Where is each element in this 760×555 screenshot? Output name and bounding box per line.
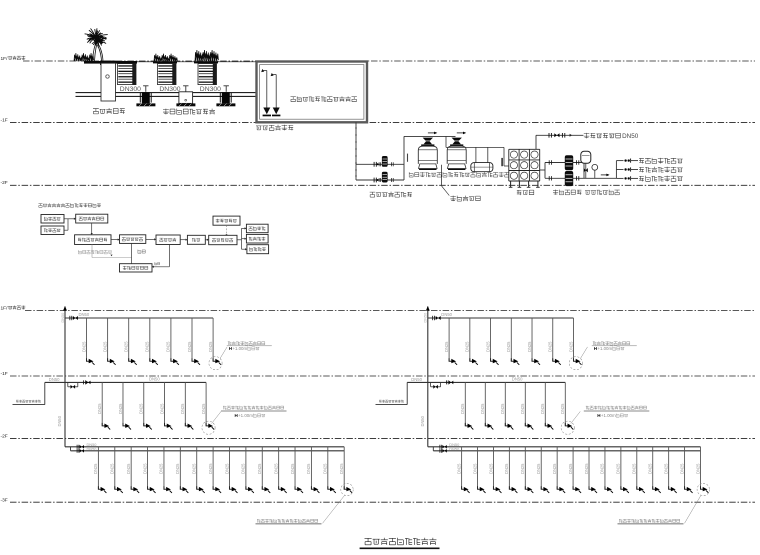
svg-text:DN25: DN25	[175, 463, 180, 474]
-2F drop pipe 10 with hose bib	[604, 447, 606, 490]
svg-text:DN25: DN25	[568, 463, 573, 474]
-2F lower distribution pipe DN50	[71, 450, 345, 452]
intercept-discard filter unit 2	[158, 64, 177, 85]
label 雨水处理提升泵	[370, 192, 412, 197]
flow box 地库冲洗	[246, 224, 268, 233]
pump discharge manifold riser	[403, 136, 405, 180]
-2F drop pipe 7 with hose bib	[556, 447, 558, 490]
diaphragm pressure tank 隔膜式气压罐	[581, 151, 591, 163]
-2F drop pipe 9 with hose bib	[228, 447, 230, 490]
gate valve (T symbol) on drop	[183, 85, 188, 87]
outlet branch: road sprinkling	[616, 177, 623, 179]
-2F drop pipe 15 with hose bib	[327, 447, 329, 490]
svg-text:DN25: DN25	[290, 463, 295, 474]
treated-water manifold to clean tank	[446, 146, 504, 148]
svg-text:DN50: DN50	[57, 415, 62, 426]
-2F drop pipe 14 with hose bib	[310, 447, 312, 490]
flowchart title 雨水收集与回用系统工艺流程	[39, 203, 101, 207]
-2F drop pipe 12 with hose bib	[636, 447, 638, 490]
shrub row right (taller planting)	[195, 50, 218, 61]
flow box 雨水收集管网	[76, 214, 108, 223]
svg-text:DN25: DN25	[166, 341, 171, 352]
svg-text:DN25: DN25	[208, 463, 213, 474]
discard path from diversion well (gray)	[91, 245, 93, 258]
-2F drop pipe 13 with hose bib	[652, 447, 654, 490]
note 绿化浇洒栓(带锁) H+1.00m	[593, 341, 630, 345]
label 雨水分流井	[93, 108, 125, 114]
inlet label 接自雨水处理机房	[379, 400, 404, 403]
1F horizontal main	[428, 317, 574, 319]
-1F drop pipe 6 with hose bib	[205, 382, 207, 426]
-1F bypass valve (below main)	[67, 382, 69, 386]
-1F drop pipe 6 with hose bib	[564, 382, 566, 426]
label 弃流	[138, 250, 145, 254]
svg-text:DN25: DN25	[472, 463, 477, 474]
riser pipe (vertical main)	[427, 307, 429, 447]
flow connector well to storage	[111, 239, 118, 241]
-2F drop pipe 2 with hose bib	[114, 447, 116, 490]
svg-text:DN25: DN25	[485, 341, 490, 352]
1F drop pipe 3 with hose bib	[490, 318, 492, 361]
-1F horizontal main	[45, 381, 206, 383]
tap water makeup pipe	[536, 134, 583, 136]
leader line to 1F note	[580, 347, 587, 359]
riser top arrowhead	[426, 306, 430, 311]
dashed instruction circle (-1F last bib)	[202, 421, 215, 434]
pressure pump branch lower / discharge main	[545, 177, 616, 179]
svg-text:DN25: DN25	[180, 403, 185, 414]
collection pipe (double line) to storage pool	[116, 92, 257, 94]
flow connector roof/road to network	[64, 218, 68, 220]
svg-text:DN25: DN25	[568, 341, 573, 352]
svg-text:DN25: DN25	[102, 341, 107, 352]
flow box 雨水处理	[156, 235, 180, 245]
-1F drop pipe 4 with hose bib	[164, 382, 166, 426]
svg-text:DN25: DN25	[584, 463, 589, 474]
pump under unit1 (black)	[139, 93, 141, 103]
1F drop pipe 1 with hose bib	[86, 318, 88, 361]
1F drop pipe 4 with hose bib	[510, 318, 512, 361]
-1F drop pipe 3 with hose bib	[504, 382, 506, 426]
svg-text:DN25: DN25	[488, 463, 493, 474]
svg-text:DN25: DN25	[93, 463, 98, 474]
dashed instruction circle (1F last bib)	[209, 357, 222, 370]
1F drop pipe 2 with hose bib	[469, 318, 471, 361]
flow box 道路浇洒	[247, 245, 269, 254]
svg-text:DN50: DN50	[449, 446, 460, 451]
svg-text:-2F: -2F	[1, 434, 8, 440]
-2F drop pipe 3 with hose bib	[130, 447, 132, 490]
svg-text:DN300: DN300	[200, 86, 221, 93]
dashed instruction circle (-2F last bib)	[697, 483, 709, 495]
-2F drop pipe 5 with hose bib	[163, 447, 165, 490]
label 蓄水池放空泵	[256, 125, 293, 131]
floor line 1F/outdoor grade (top section)	[23, 60, 755, 62]
vessel skirt carbon filter	[447, 164, 466, 169]
pump under unit3 (black)	[219, 93, 221, 103]
lift pump P2 雨水处理提升泵	[382, 172, 388, 183]
svg-text:DN25: DN25	[444, 341, 449, 352]
1F horizontal main	[65, 317, 213, 319]
flow connector clean pool to uses	[237, 239, 242, 241]
drawing title 雨水回用系统原理图	[365, 538, 437, 545]
emptying pump 2 in pool	[275, 75, 277, 108]
label 清水箱	[517, 190, 534, 195]
label 弃流(超量)雨水	[78, 250, 112, 254]
svg-text:+1.00m: +1.00m	[238, 413, 253, 418]
-2F drop pipe 6 with hose bib	[540, 447, 542, 490]
underground concrete rainwater collection pool	[257, 62, 368, 123]
svg-text:DN25: DN25	[648, 463, 653, 474]
svg-text:DN25: DN25	[145, 341, 150, 352]
makeup valve cluster	[548, 133, 550, 138]
discard drop from storage to sewer box	[131, 243, 133, 263]
-2F drop pipe 16 with hose bib	[343, 447, 345, 490]
-1F main valve	[83, 380, 85, 384]
-1F drop pipe 1 with hose bib	[101, 382, 103, 426]
svg-text:DN25: DN25	[527, 341, 532, 352]
svg-text:DN25: DN25	[159, 403, 164, 414]
leader line to -2F note	[323, 495, 345, 523]
clean tank outlet pipe	[540, 169, 545, 171]
-2F upper distribution pipe DN50	[428, 446, 701, 448]
-2F drop pipe 6 with hose bib	[179, 447, 181, 490]
svg-text:DN25: DN25	[97, 403, 102, 414]
svg-text:+1.00m: +1.00m	[597, 346, 612, 351]
1F drop pipe 5 with hose bib	[531, 318, 533, 361]
-2F drop pipe 1 with hose bib	[461, 447, 463, 490]
-1F drop pipe 5 with hose bib	[184, 382, 186, 426]
-2F drop pipe 3 with hose bib	[492, 447, 494, 490]
-2F lower distribution pipe DN50	[433, 450, 700, 452]
svg-text:DN25: DN25	[192, 463, 197, 474]
flow box 过滤	[187, 235, 205, 244]
intercept-discard filter unit 1	[118, 64, 137, 85]
leader line to -2F note	[685, 495, 702, 523]
svg-text:DN25: DN25	[465, 341, 470, 352]
leader line to 1F note	[220, 347, 227, 359]
1F main shutoff valve	[432, 316, 434, 320]
flow box 雨水蓄水池	[120, 235, 146, 244]
label 截污弃流过滤装置	[163, 109, 215, 115]
svg-text:DN25: DN25	[339, 463, 344, 474]
-2F upper distribution pipe DN50	[65, 446, 344, 448]
svg-text:DN25: DN25	[241, 463, 246, 474]
svg-text:DN50: DN50	[149, 377, 160, 382]
svg-text:DN25: DN25	[552, 463, 557, 474]
svg-text:DN25: DN25	[663, 463, 668, 474]
svg-text:DN50: DN50	[441, 312, 452, 317]
pump suction manifold	[544, 163, 546, 179]
-2F drop pipe 4 with hose bib	[147, 447, 149, 490]
svg-text:DN25: DN25	[118, 403, 123, 414]
-2F drop pipe 9 with hose bib	[588, 447, 590, 490]
svg-text:DN25: DN25	[632, 463, 637, 474]
hatched base 2	[176, 103, 195, 106]
ground caps over buried units	[84, 61, 137, 64]
flow box 市政污水管网	[120, 264, 153, 272]
svg-text:DN25: DN25	[506, 341, 511, 352]
label 排至集水坑	[450, 196, 480, 201]
flow arrow on discharge main	[601, 174, 609, 176]
flow box 自来水补水	[213, 216, 240, 225]
leader line to -1F note	[571, 411, 581, 423]
-1F drop pipe 3 with hose bib	[143, 382, 145, 426]
flow-measure chamber under unit2 (white box)	[179, 92, 193, 104]
note 洗地冲洗栓/绿化浇洒栓(带锁) H+1.00m	[223, 406, 284, 410]
svg-text:DN25: DN25	[679, 463, 684, 474]
pressure gauge	[592, 164, 598, 170]
-2F drop pipe 12 with hose bib	[278, 447, 280, 490]
outlet branch: garage flushing	[616, 160, 623, 162]
distribution header riser	[615, 161, 617, 179]
outlet branch: greening irrigation	[616, 169, 623, 171]
flow connector tap makeup (dashed)	[226, 225, 228, 234]
inflow pipe stub left of well	[76, 92, 102, 94]
tank isolation valve	[584, 168, 586, 172]
svg-text:DN25: DN25	[201, 403, 206, 414]
-1F main valve	[445, 380, 447, 384]
flow box 雨水清水池	[209, 235, 237, 244]
valve on lower -2F pipe	[76, 449, 78, 453]
multiport valve on sand filter	[423, 138, 433, 141]
flow box 绿化浇洒	[246, 234, 268, 243]
valve on upper -2F pipe	[76, 445, 78, 449]
variable-frequency pump VP1	[565, 155, 573, 170]
svg-text:DN25: DN25	[124, 341, 129, 352]
svg-text:DN25: DN25	[616, 463, 621, 474]
backwash drain pipe	[441, 165, 443, 186]
svg-text:DN25: DN25	[208, 341, 213, 352]
inlet label 接自雨水处理机房	[16, 400, 41, 403]
-1F drop pipe 2 with hose bib	[122, 382, 124, 426]
svg-text:-1F: -1F	[1, 117, 8, 123]
vessel body carbon filter	[447, 146, 466, 164]
-2F drop pipe 7 with hose bib	[196, 447, 198, 490]
svg-text:DN25: DN25	[159, 463, 164, 474]
-2F drop pipe 14 with hose bib	[668, 447, 670, 490]
svg-text:DN25: DN25	[560, 403, 565, 414]
svg-text:DN25: DN25	[323, 463, 328, 474]
lift pump P1 雨水处理提升泵	[382, 156, 388, 167]
palm tree	[93, 39, 104, 62]
gauge bar left of sand filter	[407, 154, 409, 162]
svg-text:1F/: 1F/	[1, 56, 9, 62]
note 绿化浇洒栓(带锁) H+1.00m	[228, 341, 265, 345]
svg-text:1F/: 1F/	[1, 306, 9, 312]
flow connector network to diversion well	[91, 223, 93, 234]
svg-text:DN25: DN25	[548, 341, 553, 352]
-2F drop pipe 11 with hose bib	[620, 447, 622, 490]
dashed instruction circle (1F last bib)	[569, 357, 582, 370]
svg-text:DN25: DN25	[224, 463, 229, 474]
svg-text:DN50: DN50	[87, 446, 98, 451]
svg-text:DN25: DN25	[695, 463, 700, 474]
svg-text:-3F: -3F	[1, 497, 8, 503]
svg-text:DN25: DN25	[139, 403, 144, 414]
leader line to -1F note	[212, 411, 222, 423]
svg-text:DN50: DN50	[512, 377, 523, 382]
svg-text:DN25: DN25	[187, 341, 192, 352]
floor line -1F (top section)	[10, 121, 755, 123]
inter-tank transfer pipe step	[445, 136, 447, 147]
-2F drop pipe 4 with hose bib	[508, 447, 510, 490]
svg-text:DN50: DN50	[79, 312, 90, 317]
svg-text:DN25: DN25	[520, 403, 525, 414]
svg-text:DN25: DN25	[600, 463, 605, 474]
floor line -2F (top section)	[10, 184, 755, 186]
-2F drop pipe 11 with hose bib	[261, 447, 263, 490]
floor line -1F (bottom section)	[10, 375, 755, 377]
svg-text:DN25: DN25	[273, 463, 278, 474]
svg-text:+1.00m: +1.00m	[232, 346, 247, 351]
clean tank inlet valve tick	[501, 158, 503, 166]
intercept-discard filter unit 3	[198, 64, 217, 85]
clean water tank 清水箱 (3x3 panel grid)	[509, 149, 540, 181]
-2F drop pipe 16 with hose bib	[700, 447, 702, 490]
1F drop pipe 3 with hose bib	[128, 318, 130, 361]
flow connector treatment to filter	[180, 239, 186, 241]
-1F drop pipe 4 with hose bib	[524, 382, 526, 426]
svg-text:DN25: DN25	[110, 463, 115, 474]
shrub row left	[74, 53, 94, 61]
hatched base 1	[136, 103, 155, 106]
discard drop from treatment to sewer box	[168, 245, 170, 267]
1F drop pipe 4 with hose bib	[149, 318, 151, 361]
-2F drop pipe 5 with hose bib	[524, 447, 526, 490]
1F drop pipe 7 with hose bib	[572, 318, 574, 361]
svg-text:DN50: DN50	[622, 133, 639, 140]
gate valve (T symbol) on drop	[224, 85, 229, 87]
-2F drop pipe 1 with hose bib	[97, 447, 99, 490]
-1F drop pipe 5 with hose bib	[544, 382, 546, 426]
dashed instruction circle (-1F last bib)	[561, 421, 574, 434]
1F drop pipe 1 with hose bib	[448, 318, 450, 361]
inlet pipe from treatment room (step)	[376, 404, 408, 406]
svg-text:DN25: DN25	[500, 403, 505, 414]
-1F drop pipe 2 with hose bib	[484, 382, 486, 426]
svg-text:DN25: DN25	[306, 463, 311, 474]
label 自来水补水管DN50	[584, 133, 621, 139]
UV feed drop pipes	[475, 147, 477, 162]
emptying pump 1 in pool	[266, 71, 268, 108]
flow arrow above sand filter	[428, 132, 436, 134]
1F drop pipe 2 with hose bib	[107, 318, 109, 361]
hatched base 3	[216, 103, 235, 106]
svg-text:DN25: DN25	[126, 463, 131, 474]
-1F horizontal main	[407, 381, 565, 383]
clean tank legs	[510, 181, 512, 187]
lift pump branch 2 pipe	[356, 179, 404, 181]
svg-text:DN50: DN50	[424, 313, 428, 323]
inlet pipe from treatment room (step)	[13, 404, 45, 406]
clean tank inlet pipe	[503, 147, 505, 166]
UV sterilizer vessel	[471, 163, 493, 172]
svg-text:+1.00m: +1.00m	[601, 413, 616, 418]
svg-text:DN25: DN25	[81, 341, 86, 352]
flow box 屋面雨水	[41, 215, 64, 224]
valve on lower -2F pipe	[439, 449, 441, 453]
-2F drop pipe 10 with hose bib	[245, 447, 247, 490]
floor line -2F (bottom section)	[10, 438, 755, 440]
svg-text:DN25: DN25	[456, 463, 461, 474]
label 排放	[155, 262, 160, 265]
-2F drop pipe 8 with hose bib	[572, 447, 574, 490]
svg-text:DN25: DN25	[504, 463, 509, 474]
vessel body sand filter	[418, 146, 437, 164]
riser pipe (vertical main)	[64, 307, 66, 447]
1F drop pipe 5 with hose bib	[170, 318, 172, 361]
dashed instruction circle (-2F last bib)	[341, 483, 353, 495]
-2F drop pipe 13 with hose bib	[294, 447, 296, 490]
-2F drop pipe 15 with hose bib	[684, 447, 686, 490]
vessel skirt sand filter	[419, 164, 438, 169]
note 洗地冲洗栓/绿化浇洒栓(带锁)	[257, 519, 318, 523]
lift pump branch 1 pipe	[356, 163, 404, 165]
svg-text:-1F: -1F	[1, 371, 8, 377]
svg-text:DN25: DN25	[257, 463, 262, 474]
svg-text:-2F: -2F	[1, 180, 8, 186]
pressure pump branch upper	[545, 162, 584, 164]
variable-frequency pump VP2	[565, 171, 573, 186]
-1F drop pipe 1 with hose bib	[464, 382, 466, 426]
flow connector filter to clean pool	[205, 239, 207, 241]
flow connector storage to treatment	[146, 238, 155, 240]
svg-text:DN25: DN25	[540, 403, 545, 414]
1F drop pipe 6 with hose bib	[552, 318, 554, 361]
multiport valve on carbon filter	[452, 138, 462, 141]
1F drop pipe 6 with hose bib	[191, 318, 193, 361]
svg-text:DN50: DN50	[49, 377, 60, 382]
labels 石英砂过滤器 活性炭过滤器 紫外线消毒器	[409, 172, 441, 177]
svg-text:DN25: DN25	[460, 403, 465, 414]
valve bars branch1	[373, 162, 375, 167]
valve bars branch2	[373, 178, 375, 183]
flow arrow above carbon filter	[457, 132, 465, 134]
svg-text:DN25: DN25	[536, 463, 541, 474]
label 恒压变频泵 隔膜式气压罐	[553, 190, 581, 195]
riser top arrowhead	[63, 306, 67, 311]
rain diversion well 雨水分流井	[100, 61, 116, 65]
svg-text:DN25: DN25	[142, 463, 147, 474]
-1F bypass valve (below main)	[430, 382, 432, 386]
shrub row middle	[154, 54, 177, 62]
flow box 路面雨水	[41, 226, 64, 235]
svg-text:DN50: DN50	[411, 377, 422, 382]
svg-text:DN50: DN50	[61, 313, 65, 323]
-2F drop pipe 8 with hose bib	[212, 447, 214, 490]
flow box 初期雨水分流井	[75, 235, 111, 245]
svg-text:DN25: DN25	[480, 403, 485, 414]
1F main shutoff valve	[69, 316, 71, 320]
-2F drop pipe 2 with hose bib	[477, 447, 479, 490]
svg-text:DN300: DN300	[120, 86, 141, 93]
valve on upper -2F pipe	[439, 445, 441, 449]
svg-text:DN25: DN25	[520, 463, 525, 474]
-2F riser elbow to lower pipe	[432, 447, 434, 451]
svg-text:DN300: DN300	[159, 86, 180, 93]
1F drop pipe 7 with hose bib	[212, 318, 214, 361]
floor line 1F/outdoor grade (bottom section)	[25, 310, 755, 312]
note 洗地冲洗栓/绿化浇洒栓(带锁) H+1.00m	[586, 406, 647, 410]
gate valve (T symbol) on drop	[143, 85, 148, 87]
-2F riser elbow to lower pipe	[70, 447, 72, 451]
upper branch return drop	[583, 163, 585, 179]
suction pipe from pool bottom	[355, 122, 357, 180]
filter inlet manifold	[404, 135, 456, 137]
note 洗地冲洗栓/绿化浇洒栓(带锁)	[619, 519, 680, 523]
svg-text:DN50: DN50	[420, 415, 425, 426]
